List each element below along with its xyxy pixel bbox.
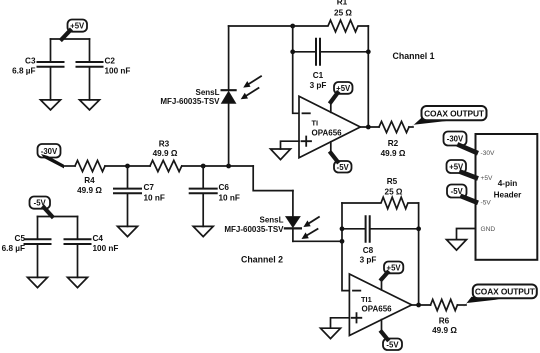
svg-text:R5: R5 (387, 177, 398, 186)
wire bottom-left rail (38, 216, 78, 218)
svg-text:COAX OUTPUT: COAX OUTPUT (475, 287, 536, 297)
svg-text:10 nF: 10 nF (219, 194, 240, 203)
wire +input to ground (U1) (281, 141, 300, 149)
svg-text:-30V: -30V (481, 150, 496, 157)
svg-text:+5V: +5V (70, 22, 85, 31)
ground (C2) (80, 100, 100, 110)
+5V label (header) (447, 160, 476, 178)
-5V supply label (left) (30, 197, 53, 217)
svg-text:100 nF: 100 nF (93, 244, 119, 253)
resistor R4 (75, 160, 105, 195)
-30V label (header) (444, 132, 476, 153)
node C8 right (416, 226, 421, 231)
coax output pointer ch2 (463, 297, 499, 308)
svg-text:C1: C1 (313, 71, 324, 80)
svg-text:6.8 µF: 6.8 µF (12, 67, 35, 76)
capacitor C5 (2, 217, 51, 278)
wire channel 2 drop (253, 166, 293, 191)
svg-text:R6: R6 (439, 317, 450, 326)
wire R4 to R3 (105, 165, 150, 167)
svg-text:-5V: -5V (337, 163, 350, 172)
svg-text:TI: TI (312, 118, 319, 127)
svg-text:C3: C3 (25, 57, 36, 66)
-5V label (op-amp U2) (382, 320, 403, 350)
svg-text:Channel 1: Channel 1 (392, 51, 434, 61)
wire PD2 to feedback ch2 (293, 240, 342, 242)
-30V supply label (38, 144, 65, 168)
capacitor C1 (293, 39, 369, 90)
4-pin header J1 (476, 134, 538, 260)
node input junction ch2 (340, 239, 345, 244)
ground (C3) (41, 100, 61, 110)
resistor R6 (431, 299, 458, 335)
svg-text:25 Ω: 25 Ω (334, 9, 352, 18)
svg-text:C5: C5 (15, 234, 26, 243)
op-amp U1 TI OPA656 (299, 96, 360, 158)
wire R6 to coax pointer (458, 304, 467, 306)
resistor R5 (342, 177, 419, 209)
ground (header GND) (447, 240, 467, 251)
svg-text:49.9 Ω: 49.9 Ω (381, 149, 406, 158)
svg-text:-30V: -30V (41, 147, 58, 156)
wire feedback left rail ch1 (293, 26, 299, 113)
node C1 left (290, 49, 295, 54)
ground (U2 +input) (321, 328, 341, 338)
wire PD1 rail up (228, 103, 230, 166)
-5V label (header) (447, 185, 476, 203)
+5V supply label (top-left) (62, 20, 87, 40)
svg-text:-5V: -5V (481, 199, 492, 206)
wire U1 output (360, 126, 379, 128)
capacitor C8 (342, 216, 419, 264)
svg-text:TI1: TI1 (361, 295, 372, 304)
node C8 left (340, 226, 345, 231)
wire PD2 rail (292, 191, 294, 217)
svg-text:6.8 µF: 6.8 µF (2, 244, 25, 253)
svg-text:C6: C6 (219, 183, 230, 192)
wire U2 output (412, 304, 431, 306)
wire R2 to coax pointer (409, 126, 413, 128)
svg-text:49.9 Ω: 49.9 Ω (153, 149, 178, 158)
svg-text:R3: R3 (159, 140, 170, 149)
node U2 output junction (416, 303, 421, 308)
svg-text:MFJ-60035-TSV: MFJ-60035-TSV (224, 225, 284, 234)
svg-text:GND: GND (481, 226, 496, 233)
svg-text:3 pF: 3 pF (360, 256, 377, 265)
capacitor C7 (114, 166, 165, 226)
wire header GND (457, 229, 476, 240)
svg-text:Channel 2: Channel 2 (241, 255, 283, 265)
wire feedback left rail ch2 (342, 203, 349, 291)
light arrows D1 (241, 76, 261, 99)
node feedback ch1 top-left (290, 24, 295, 29)
svg-text:C8: C8 (363, 246, 374, 255)
ground (C4) (68, 277, 88, 287)
capacitor C4 (65, 217, 119, 278)
photodiode D1 SensL MFJ-60035-TSV (160, 26, 235, 106)
photodiode D2 SensL MFJ-60035-TSV (224, 216, 301, 242)
svg-text:R2: R2 (388, 139, 399, 148)
capacitor C6 (190, 166, 240, 226)
op-amp U2 TI1 OPA656 (349, 274, 411, 336)
ground (U1 +input) (271, 149, 291, 160)
+5V label (op-amp U2) (382, 262, 404, 290)
ground (C7) (118, 226, 138, 236)
svg-text:R1: R1 (337, 0, 348, 7)
svg-text:C2: C2 (105, 57, 116, 66)
svg-text:C7: C7 (144, 183, 155, 192)
svg-text:Header: Header (494, 190, 523, 199)
-5V label (op-amp U1) (331, 142, 352, 173)
svg-text:MFJ-60035-TSV: MFJ-60035-TSV (160, 97, 220, 106)
ground (C5) (28, 277, 48, 287)
node junction C7 (125, 164, 130, 169)
wire feedback right rail ch1 (367, 26, 369, 127)
svg-text:-30V: -30V (447, 135, 464, 144)
resistor R3 (150, 140, 182, 172)
node C1 right (366, 49, 371, 54)
light arrows D2 (302, 217, 319, 239)
wire feedback right rail ch2 (418, 203, 420, 305)
node junction photodiode 1 rail (226, 164, 231, 169)
+5V label (op-amp U1) (331, 82, 353, 112)
svg-text:SensL: SensL (195, 88, 219, 97)
svg-text:49.9 Ω: 49.9 Ω (432, 326, 457, 335)
svg-text:C4: C4 (93, 234, 104, 243)
svg-text:10 nF: 10 nF (144, 194, 165, 203)
wire top-left rail (51, 38, 90, 40)
capacitor C3 (12, 39, 63, 100)
svg-text:3 pF: 3 pF (310, 81, 327, 90)
COAX OUTPUT label ch2 (473, 285, 537, 299)
wire R3 to channel split (182, 165, 253, 167)
svg-text:R4: R4 (84, 176, 95, 185)
svg-text:4-pin: 4-pin (498, 179, 518, 188)
node junction C6 (201, 164, 206, 169)
svg-text:SensL: SensL (259, 216, 283, 225)
wire PD1 top to feedback (229, 25, 293, 27)
wire -30V to R4 (64, 165, 76, 167)
wire +input to ground (U2) (331, 318, 350, 328)
ground (C6) (193, 226, 213, 236)
node U1 output junction (366, 125, 371, 130)
COAX OUTPUT label ch1 (422, 106, 487, 120)
resistor R1 (293, 0, 369, 32)
capacitor C2 (77, 39, 131, 100)
coax output pointer ch1 (410, 118, 454, 129)
svg-text:OPA656: OPA656 (362, 304, 393, 313)
svg-text:COAX OUTPUT: COAX OUTPUT (424, 108, 485, 118)
svg-text:-5V: -5V (386, 340, 399, 349)
svg-text:25 Ω: 25 Ω (385, 188, 403, 197)
svg-text:+5V: +5V (481, 175, 494, 182)
svg-text:100 nF: 100 nF (105, 67, 131, 76)
svg-text:49.9 Ω: 49.9 Ω (77, 186, 102, 195)
svg-text:OPA656: OPA656 (312, 129, 343, 138)
resistor R2 (379, 121, 409, 157)
